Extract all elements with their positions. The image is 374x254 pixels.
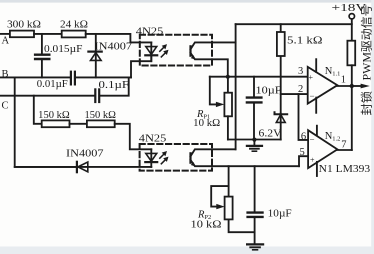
svg-text:4N25: 4N25 [139, 134, 167, 145]
capacitor 10uF upper plates [247, 96, 262, 98]
svg-text:0.01µF: 0.01µF [37, 79, 68, 90]
wire between 150k resistors [70, 123, 87, 125]
svg-text:PWM驱动信号: PWM驱动信号 [361, 5, 374, 81]
svg-text:A: A [2, 36, 10, 47]
svg-text:1: 1 [341, 75, 346, 86]
capacitor 0.1uF plates [94, 89, 96, 102]
svg-text:10µF: 10µF [268, 209, 292, 220]
op-amp N1.1 triangle [308, 67, 338, 104]
svg-text:150 kΩ: 150 kΩ [38, 110, 70, 121]
svg-text:7: 7 [341, 140, 346, 151]
wire: left vertical B to lower diode [15, 77, 77, 166]
node dot emitter/RP1/pin3 [226, 75, 230, 79]
ground node dot [252, 138, 256, 142]
resistor 150kΩ second [87, 120, 115, 127]
wire: pin5 step [299, 156, 308, 166]
svg-text:B: B [2, 69, 9, 80]
capacitor 0.015uF plates [35, 54, 49, 56]
wire: N1.2 output pin7 [337, 149, 351, 151]
capacitor 10uF lower plates [248, 211, 263, 213]
resistor pull-up body [347, 41, 355, 66]
svg-text:3: 3 [298, 66, 303, 77]
potentiometer RP2 wiper loop [211, 186, 228, 207]
resistor 300kΩ [10, 31, 34, 38]
wire: +18V rail horizontal [236, 23, 352, 25]
potentiometer RP2 body [228, 166, 230, 196]
svg-text:+: + [309, 73, 314, 82]
svg-text:C: C [2, 101, 9, 112]
op-amp N1.2 power stubs [316, 126, 318, 136]
svg-text:IN4007: IN4007 [95, 42, 133, 53]
svg-text:−: − [310, 91, 315, 101]
wire: C line [0, 95, 95, 97]
wire: RP2 bottom to cap [229, 219, 255, 232]
svg-text:IN4007: IN4007 [66, 149, 104, 160]
wire: input A stub [0, 33, 10, 35]
svg-text:N1 LM393: N1 LM393 [319, 164, 371, 175]
LED upper lead and symbol [150, 42, 152, 61]
wire: C branch down to 150k chain [34, 96, 42, 124]
resistor 24kΩ [62, 31, 86, 38]
terminal +18V circle [349, 14, 354, 19]
scan edge tint right [371, 0, 374, 254]
svg-text:10 kΩ: 10 kΩ [191, 220, 222, 231]
svg-text:150 kΩ: 150 kΩ [85, 110, 117, 121]
svg-text:−: − [310, 135, 315, 145]
svg-text:5.1 kΩ: 5.1 kΩ [287, 36, 323, 47]
svg-text:5: 5 [300, 147, 305, 158]
svg-text:300 kΩ: 300 kΩ [7, 20, 41, 31]
svg-text:0.1µF: 0.1µF [99, 80, 130, 91]
capacitor 10uF lower leads [254, 166, 256, 211]
phototransistor upper [189, 46, 191, 55]
capacitor 0.01uF plates [70, 72, 72, 85]
zener 6.2V symbol [275, 112, 288, 114]
optocoupler 4N25 lower dashed box [140, 144, 212, 171]
resistor 5.1kΩ body [277, 32, 285, 56]
wire: pin2 line [281, 93, 308, 95]
LED lower emission arrows [160, 154, 164, 158]
potentiometer RP1 wiper [210, 77, 217, 105]
svg-text:封锁: 封锁 [360, 90, 374, 115]
svg-text:10 kΩ: 10 kΩ [193, 118, 220, 129]
wire: Vcc vertical for opto collectors [235, 24, 237, 149]
svg-text:6.2V: 6.2V [259, 129, 282, 140]
wire: LED upper cathode exit to B [131, 55, 151, 77]
svg-text:+: + [310, 156, 315, 165]
optocoupler 4N25 upper dashed box [140, 35, 212, 66]
ground symbol middle [253, 140, 255, 146]
wire: pin3 line [210, 76, 308, 78]
scan edge tint top [0, 0, 374, 3]
wire: 150k chain to lower opto anode [115, 124, 152, 150]
wire: LED lower cathode to diode [15, 166, 152, 168]
wire: output rail vertical [351, 65, 353, 150]
op-amp N1.1 power stubs [315, 59, 317, 72]
wire: pin2 to pin6 link [299, 94, 309, 140]
diode IN4007 upper symbol [88, 50, 101, 52]
svg-text:24 kΩ: 24 kΩ [60, 20, 88, 31]
signal arrow to PWM [352, 85, 361, 87]
phototransistor lower [189, 153, 191, 162]
wire: C after cap up to B [100, 77, 129, 95]
svg-text:4N25: 4N25 [136, 26, 164, 37]
LED upper emission arrows [160, 47, 164, 51]
wire: A to opto step [86, 34, 152, 43]
scan edge tint bottom [0, 247, 374, 254]
node dot output rail [350, 84, 354, 88]
svg-text:10µF: 10µF [256, 86, 283, 97]
svg-text:2: 2 [298, 84, 303, 95]
resistor 150kΩ first [42, 120, 70, 127]
wire: B line [0, 76, 70, 78]
wire: ground bus [228, 139, 281, 141]
diode IN4007 lower symbol [76, 162, 78, 172]
potentiometer RP1 body [227, 77, 229, 93]
wire: N1.1 output [337, 85, 351, 87]
diode IN4007 upper leads [95, 34, 97, 78]
capacitor 10uF upper leads [253, 77, 255, 97]
ground symbol bottom [247, 243, 263, 245]
wire: A between resistors [34, 33, 62, 35]
capacitor 0.015uF leads [41, 34, 43, 54]
svg-text:0.015µF: 0.015µF [44, 44, 83, 55]
LED lower lead and symbol [150, 149, 152, 167]
resistor 5.1kΩ leads [280, 24, 282, 32]
svg-text:6: 6 [301, 132, 306, 143]
op-amp N1.2 triangle [308, 130, 337, 168]
